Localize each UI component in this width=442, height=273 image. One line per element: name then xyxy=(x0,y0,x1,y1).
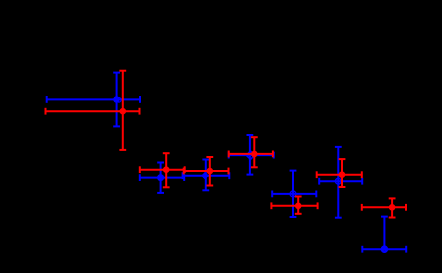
wire: blue v error bar bin3 xyxy=(205,160,207,191)
node: blue marker bin1 xyxy=(113,96,119,102)
wire: blue v error bar bin4 xyxy=(249,135,251,175)
wire: red h error bar bin1 xyxy=(46,110,140,112)
wire: blue h error bar bin6 xyxy=(319,180,362,182)
wire: red v error bar bin6 xyxy=(341,159,343,187)
wire: red v error bar bin7 xyxy=(391,198,393,217)
node: red marker bin1 xyxy=(120,108,127,115)
wire: red h error bar bin7 xyxy=(362,206,406,208)
node: red marker bin6 xyxy=(339,171,346,178)
node: blue open circle marker bin5 xyxy=(290,191,296,197)
node: red marker bin2 xyxy=(163,166,170,173)
wire: blue h error bar bin1 xyxy=(47,98,140,100)
wire: blue v error bar bin1 xyxy=(116,73,118,127)
wire: blue h error bar bin4 xyxy=(229,154,274,156)
node: blue open diamond marker bin4 xyxy=(246,151,254,159)
wire: blue h error bar bin5 xyxy=(272,193,316,195)
wire: blue v error bar bin7 (upper only) xyxy=(383,217,385,250)
wire: red v error bar bin4 xyxy=(253,137,255,167)
node: red marker bin4 xyxy=(251,151,258,158)
node: red marker bin3 xyxy=(207,168,214,175)
wire: red h error bar bin5 xyxy=(271,205,317,207)
node: blue open circle marker bin7 xyxy=(382,247,387,252)
wire: blue h error bar bin3 xyxy=(183,175,230,177)
wire: blue v error bar bin6 xyxy=(337,147,339,218)
wire: red v error bar bin1 xyxy=(122,71,124,150)
node: blue marker bin2 xyxy=(157,174,164,181)
node: red marker bin5 xyxy=(295,203,302,210)
node: red marker bin7 xyxy=(389,204,396,211)
wire: blue h error bar bin2 xyxy=(140,177,184,179)
wire: red h error bar bin2 xyxy=(140,169,185,171)
wire: red v error bar bin2 xyxy=(165,153,167,187)
wire: red h error bar bin4 xyxy=(229,153,273,155)
node: blue open circle marker bin6 xyxy=(335,178,341,184)
wire: blue v error bar bin5 xyxy=(292,171,294,217)
wire: blue h error bar bin7 xyxy=(362,248,406,250)
wire: blue v error bar bin2 xyxy=(160,163,162,193)
wire: red v error bar bin5 xyxy=(297,197,299,214)
node: blue diamond marker bin3 xyxy=(201,172,209,180)
wire: red h error bar bin6 xyxy=(317,174,362,176)
wire: red v error bar bin3 xyxy=(209,157,211,186)
node: blue open ring bin1 xyxy=(117,98,122,103)
wire: red h error bar bin3 xyxy=(184,170,229,172)
